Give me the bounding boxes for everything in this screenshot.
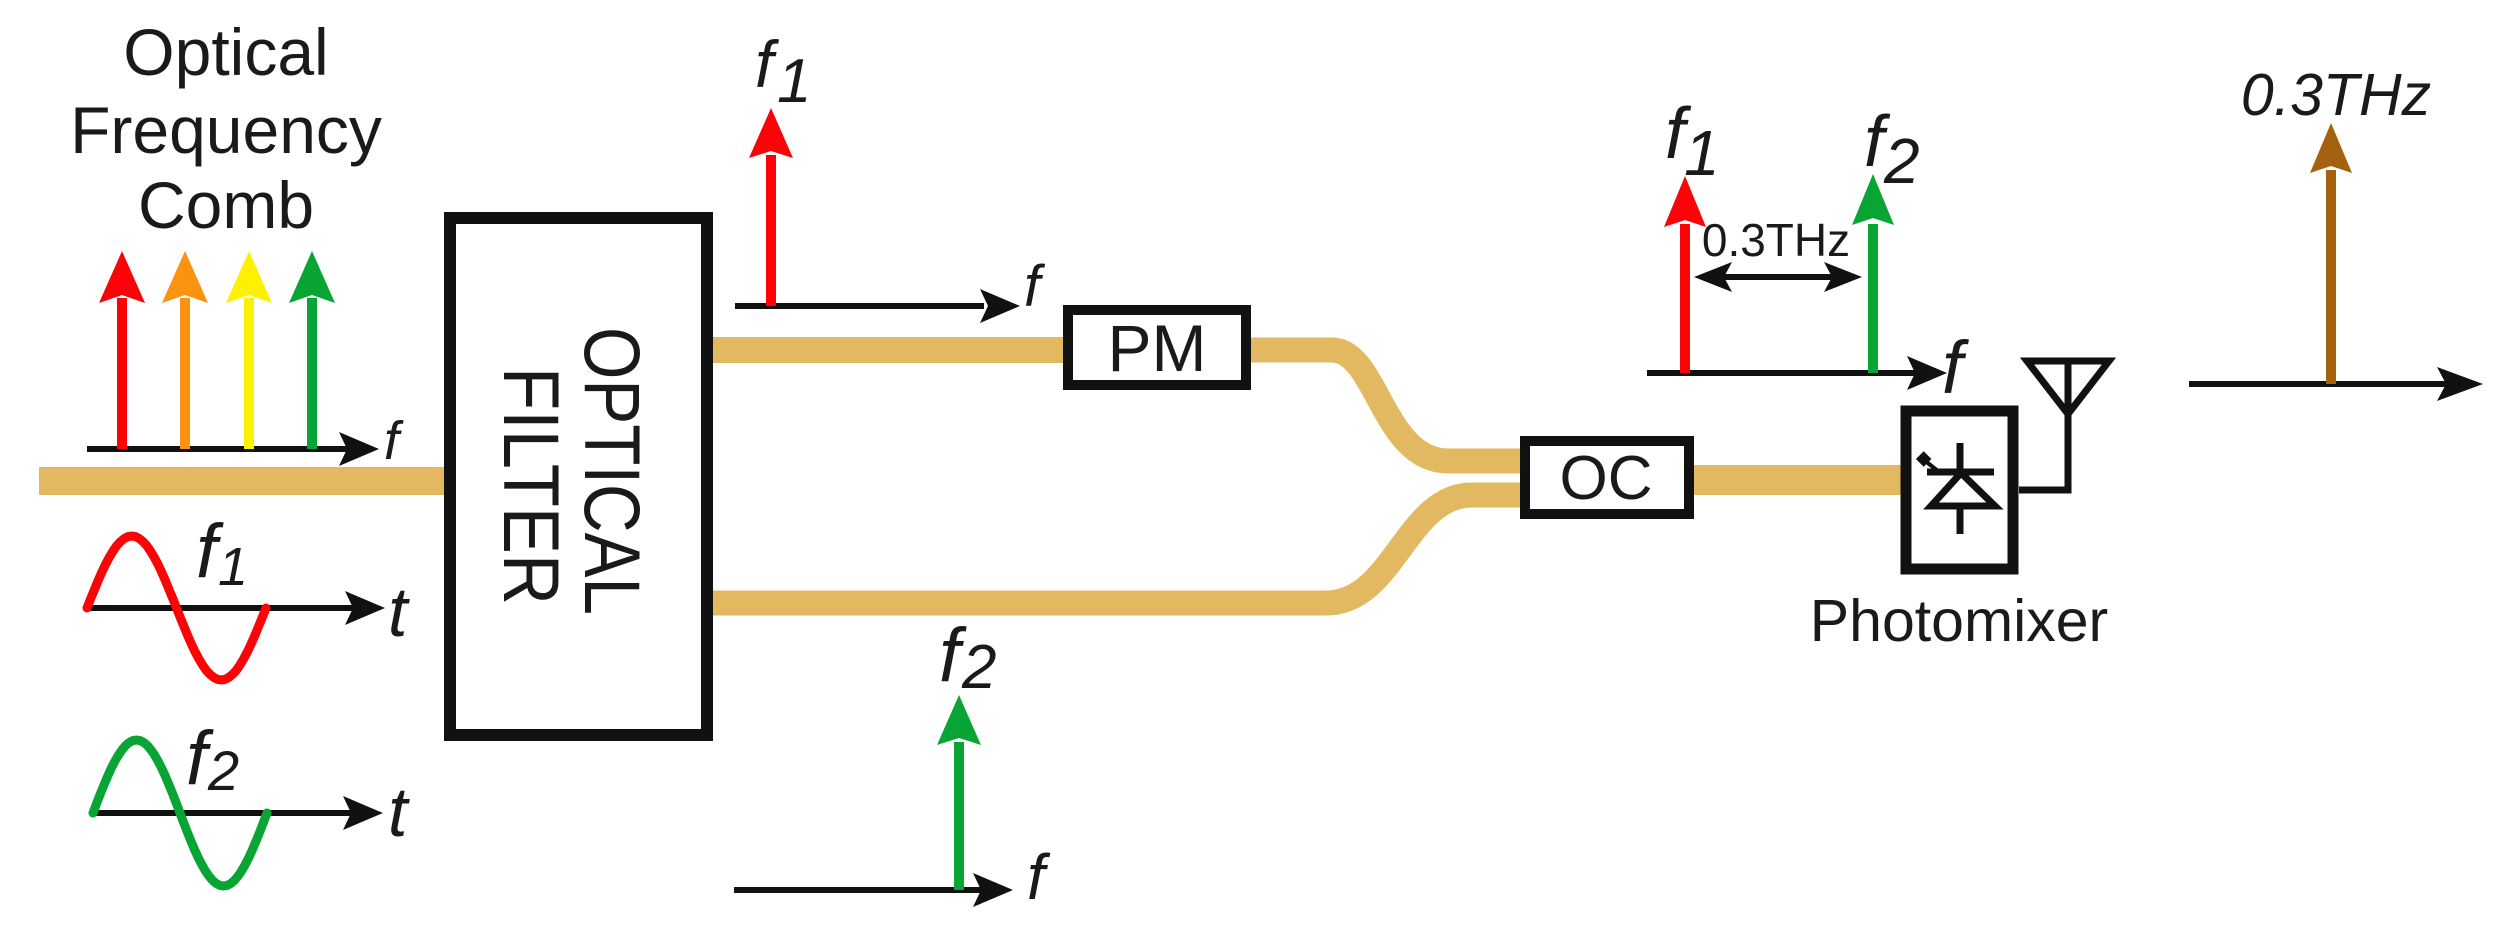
node: label f2 above green spectral line (939, 613, 996, 702)
wire: fiber from PM to OC upper input S-curve (1246, 350, 1530, 461)
node: label f1 above red spectral line (755, 27, 811, 116)
node: comb axis arrowhead (339, 432, 379, 466)
svg-text:0.3THz: 0.3THz (2241, 62, 2431, 128)
node: photodiode D1 inside photomixer (1927, 443, 1995, 534)
svg-text:2: 2 (207, 739, 239, 802)
node: comb tooth 4 green arrow (289, 251, 335, 449)
svg-text:FILTER: FILTER (487, 367, 576, 605)
node: incident light arrow into photodiode (1916, 451, 1938, 471)
node: f2 sine wave green (93, 740, 267, 886)
node: combined spectrum f1 red arrow (1664, 176, 1706, 373)
svg-text:PM: PM (1108, 311, 1207, 385)
node: filtered f2 axis arrowhead (973, 873, 1013, 907)
node: comb spectrum frequency axis (87, 446, 352, 452)
svg-text:OC: OC (1560, 444, 1653, 513)
node: f1 sine wave red (87, 536, 266, 680)
node: f1 time axis arrowhead (345, 591, 385, 625)
box: photomixer block U2 (1906, 411, 2013, 569)
node: label f2 combined spectrum (1864, 102, 1920, 197)
node: label f1 combined spectrum (1665, 94, 1720, 189)
node: f2 time axis arrowhead (343, 796, 383, 830)
svg-text:Optical: Optical (123, 15, 328, 89)
svg-text:Photomixer: Photomixer (1810, 588, 2108, 654)
svg-text:f: f (384, 411, 404, 471)
node: combined spectrum frequency axis (1647, 370, 1918, 376)
node: Optical Frequency Comb source label (70, 15, 382, 242)
node: comb tooth 1 red arrow (99, 251, 145, 449)
box: optical coupler OC (1525, 441, 1689, 514)
node: 0.3THz output spectral line brown arrow (2310, 123, 2352, 384)
node: THz output spectrum frequency axis (2189, 381, 2448, 387)
wire: fiber from filter upper port to PM (710, 337, 1069, 363)
node: comb tooth 3 yellow arrow (226, 251, 272, 449)
node: label f2 of green sine (186, 716, 239, 802)
node: THz output axis arrowhead (2437, 367, 2483, 401)
svg-text:2: 2 (961, 633, 996, 702)
node: filtered f1 axis arrowhead (980, 289, 1020, 323)
wire: fiber from filter lower port to OC lower input S-curve (710, 495, 1530, 603)
node: f2 time axis (93, 810, 356, 816)
svg-text:f: f (1024, 254, 1046, 319)
svg-text:f: f (1027, 841, 1051, 913)
wire: input optical fiber into filter (39, 467, 446, 495)
node: filtered f1 spectrum frequency axis (735, 303, 984, 309)
svg-text:1: 1 (1684, 117, 1720, 189)
node: label f1 of red sine (196, 509, 248, 597)
wire: photomixer output to antenna feed (2019, 361, 2068, 490)
node: 0.3THz spacing double-headed arrow (1694, 262, 1862, 292)
box: phase modulator PM (1068, 310, 1246, 385)
svg-text:0.3THz: 0.3THz (1702, 214, 1850, 266)
node: filtered f2 spectrum frequency axis (734, 887, 986, 893)
svg-text:1: 1 (218, 537, 248, 597)
svg-text:t: t (388, 573, 410, 651)
wire: fiber from OC output to photomixer (1690, 465, 1906, 495)
node: comb tooth 2 orange arrow (162, 251, 208, 449)
node: filtered f1 spectral line red arrow (749, 108, 793, 306)
svg-text:t: t (388, 773, 410, 851)
node: antenna ANT1 (2027, 361, 2109, 414)
svg-text:2: 2 (1883, 125, 1920, 197)
node: filtered f2 spectral line green arrow (937, 695, 981, 890)
svg-text:Frequency: Frequency (70, 93, 382, 167)
svg-text:Comb: Comb (138, 168, 314, 242)
node: combined spectrum f2 green arrow (1852, 174, 1894, 373)
svg-text:1: 1 (777, 47, 811, 116)
node: f1 time axis (87, 605, 358, 611)
svg-text:f: f (1942, 326, 1969, 409)
box: OPTICAL FILTER block U1 (450, 218, 707, 735)
svg-text:OPTICAL: OPTICAL (568, 327, 657, 615)
node: combined axis arrowhead (1907, 356, 1947, 390)
